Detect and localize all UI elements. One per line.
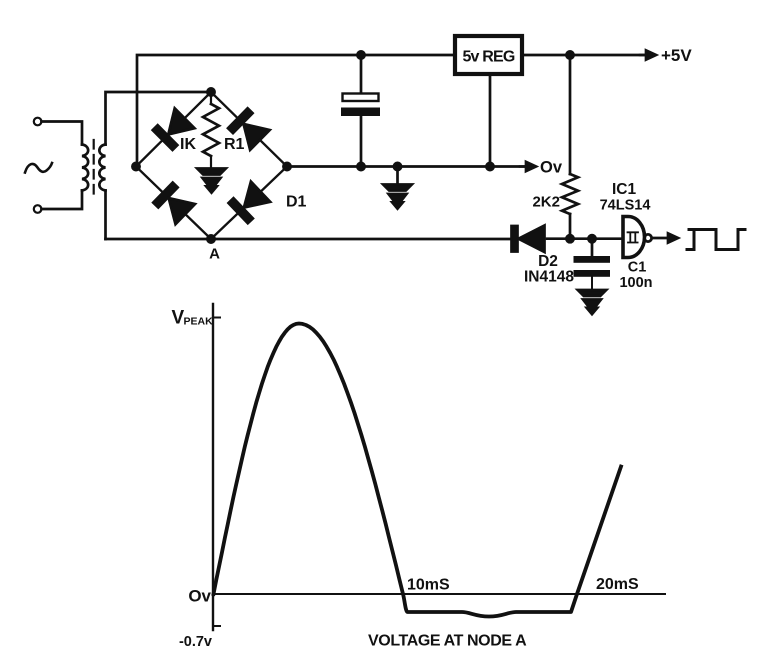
svg-text:-0.7v: -0.7v — [179, 634, 212, 650]
svg-text:PEAK: PEAK — [184, 316, 214, 328]
svg-text:D2: D2 — [538, 253, 558, 270]
svg-text:R1: R1 — [224, 136, 245, 153]
svg-text:IK: IK — [180, 136, 196, 153]
svg-text:2K2: 2K2 — [532, 194, 560, 211]
svg-text:VOLTAGE AT NODE A: VOLTAGE AT NODE A — [368, 633, 527, 650]
svg-text:D1: D1 — [286, 194, 307, 211]
svg-text:+5V: +5V — [661, 46, 692, 65]
svg-text:Ov: Ov — [540, 159, 563, 177]
svg-text:74LS14: 74LS14 — [600, 198, 651, 214]
svg-text:Ov: Ov — [188, 587, 211, 606]
svg-text:20mS: 20mS — [596, 576, 639, 593]
svg-text:A: A — [209, 246, 220, 263]
svg-text:IC1: IC1 — [612, 181, 637, 198]
svg-text:5v REG: 5v REG — [462, 49, 514, 66]
svg-text:C1: C1 — [628, 260, 647, 276]
svg-text:10mS: 10mS — [407, 577, 450, 594]
svg-text:100n: 100n — [619, 275, 652, 291]
svg-text:IN4148: IN4148 — [524, 269, 574, 286]
